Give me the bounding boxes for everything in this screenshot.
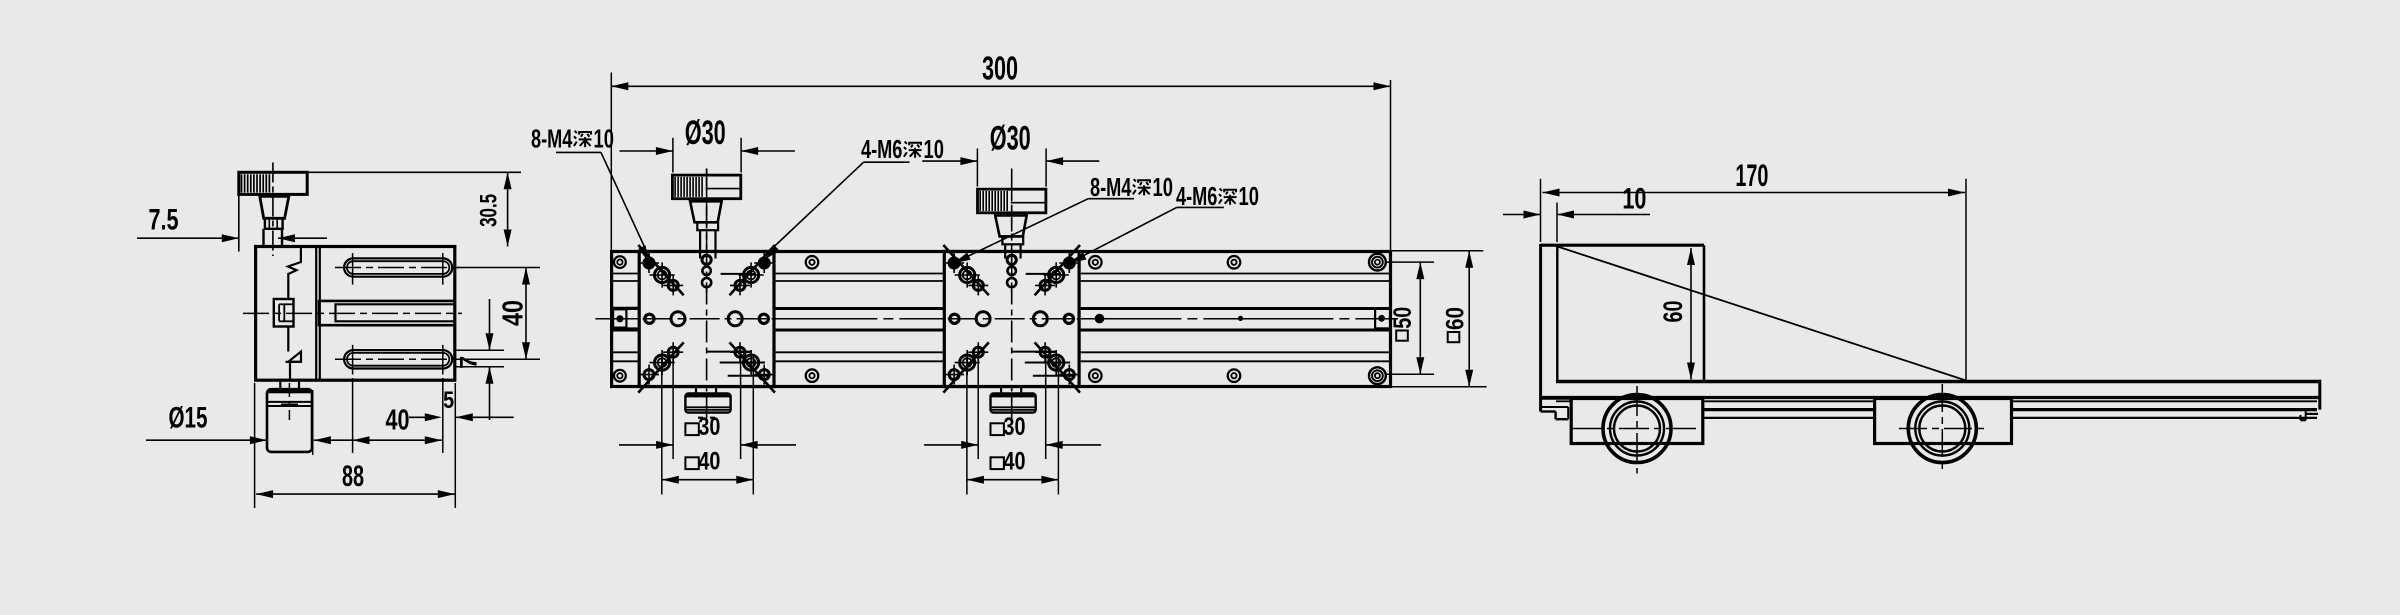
left view: middle slot outer band [319, 301, 455, 325]
right view: rail right end steps [2318, 380, 2321, 410]
left view: dim 7.5 extension line [238, 194, 240, 251]
knob 1 tapered collar [690, 201, 722, 222]
svg-text:40: 40 [386, 405, 410, 437]
right view: knob circle 1 [1603, 395, 1671, 463]
svg-text:50: 50 [1389, 307, 1417, 329]
left view: micrometer stem [262, 229, 264, 248]
middle view: rail groove lines [613, 273, 1389, 275]
middle view: dim square-60 extension lines [1392, 250, 1483, 252]
right view: dim 170 [1543, 192, 1966, 194]
svg-text:30: 30 [1004, 414, 1026, 441]
right view: dim 170 extension lines [1540, 179, 1542, 242]
middle view: carriage 2 dim square-40 [967, 479, 1059, 481]
svg-text:30: 30 [698, 414, 720, 441]
svg-text:7.5: 7.5 [149, 205, 179, 237]
middle view: dim square-50 [1419, 262, 1421, 374]
middle view: rail counterbored hole pair x=1377 [1369, 254, 1386, 271]
left view: dim 40 vertical extension lines [456, 267, 540, 269]
svg-text:10: 10 [1239, 183, 1259, 211]
middle view: micrometer knob 2 [1011, 183, 1013, 280]
left view: micrometer cap neck below body [279, 380, 281, 389]
left view: horizontal centerline of middle slot [243, 312, 462, 314]
carriage 2 bottom-left hole group [943, 342, 988, 392]
middle view: carriage 2 square-40 extension lines [966, 357, 968, 495]
knob 1 stem [697, 222, 718, 230]
middle view: dim Ø30 knob1 [620, 150, 673, 152]
middle view: bottom knob cap 2 [1000, 387, 1002, 394]
knob 2 tapered collar [995, 215, 1026, 236]
left view: captive nut block [274, 299, 294, 327]
svg-text:8-M4: 8-M4 [1090, 174, 1132, 202]
middle view: rail counterbored hole pair x=1095 [1089, 256, 1102, 269]
svg-text:10: 10 [1622, 183, 1646, 216]
left view: cap centerline cross [288, 383, 290, 420]
knob 2 stem [1002, 236, 1023, 244]
svg-text:40: 40 [1004, 449, 1026, 476]
middle view: dim 300 extension lines [610, 73, 612, 251]
left view: dim 30.5 [507, 172, 509, 246]
svg-text:4-M6: 4-M6 [861, 136, 902, 164]
middle view: dim square-50 extension lines [1386, 261, 1434, 263]
middle view: dim Ø30 knob1 extension lines [672, 138, 674, 173]
middle view: left end counterbored holes [614, 256, 626, 268]
left view: dim 7.5 [137, 237, 239, 239]
right view: rail lower groove lines [1703, 408, 1875, 411]
middle view: carriage 1 square-30 extension lines [672, 347, 674, 459]
left view: dim 40 bottom extension lines [352, 378, 354, 453]
middle view: rail left end cap [638, 252, 640, 387]
middle view: carriage 2 square-30 extension lines [977, 347, 979, 459]
svg-text:60: 60 [1442, 307, 1470, 330]
svg-text:30.5: 30.5 [476, 194, 503, 227]
carriage 2 top-right hole group [1035, 245, 1080, 295]
middle view: cap1 centerline dots [698, 417, 716, 419]
svg-text:40: 40 [497, 300, 529, 326]
svg-text:10: 10 [594, 126, 614, 154]
carriage 1 centre column holes [706, 169, 708, 426]
svg-text:300: 300 [982, 50, 1018, 87]
left view: dim 40 bottom [353, 439, 442, 441]
right view: knob circle 2 [1908, 395, 1976, 463]
left view: zigzag break line [288, 248, 301, 299]
carriage 2 centre column holes [1011, 169, 1013, 426]
middle view: rail body outline [612, 252, 1391, 387]
middle view: carriage 1 dim square-30 [619, 444, 673, 446]
left view: micrometer vertical centerline [272, 163, 274, 257]
carriage 2 centre row holes [901, 318, 1085, 320]
svg-text:Ø30: Ø30 [990, 120, 1031, 158]
middle view: carriage 1 dim square-40 [662, 479, 754, 481]
left view: body outline [256, 247, 455, 381]
middle view: rail counterbored hole pair x=812 [806, 256, 819, 269]
middle view: rail right groove end block [1375, 309, 1390, 329]
left view: micrometer tapered collar [260, 196, 289, 218]
right view: carriage block 2 [1875, 399, 2012, 444]
middle view: carriage 1 plate [639, 252, 774, 387]
svg-text:170: 170 [1735, 158, 1768, 193]
middle view: carriage 2 dim square-30 [924, 444, 978, 446]
carriage 2 bottom-right hole group [1035, 342, 1080, 392]
left view: dim 7 extension lines [456, 349, 504, 351]
svg-text:Ø30: Ø30 [685, 114, 726, 152]
left view: carriage/body divider lines [315, 247, 317, 381]
middle view: rail centerline [595, 318, 1398, 320]
middle view: rail centerline dots [1095, 314, 1105, 324]
carriage 1 top-right hole group [730, 245, 775, 295]
svg-text:5: 5 [443, 388, 454, 414]
svg-text:10: 10 [924, 136, 944, 164]
middle view: left end screw square [613, 309, 626, 327]
middle view: micrometer knob 1 [706, 169, 708, 266]
left view: dim 88 extension lines [254, 383, 256, 508]
right view: rail lower surface [1542, 396, 2319, 399]
middle view: dim 300 [611, 85, 1390, 87]
right view: dim 10 extension line [1556, 203, 1558, 243]
svg-text:Ø15: Ø15 [169, 403, 208, 435]
middle view: bottom knob cap 1 [695, 387, 697, 394]
middle view: leader target hole fills [644, 258, 655, 269]
right view: rail top surface [1556, 380, 2321, 383]
right view: table top plate [1541, 244, 1705, 247]
right view: dim 60 [1690, 248, 1692, 380]
left view: dim 40 vertical [525, 268, 527, 360]
left view: lock lever stem and flag [287, 327, 289, 352]
right view: left plate inner edge [1556, 244, 1558, 380]
carriage 2 section tick lines [1026, 273, 1061, 275]
carriage 1 bottom-left hole group [638, 342, 683, 392]
middle view: dim Ø30 knob2 extension lines [976, 149, 978, 187]
middle view: carriage 2 plate [944, 252, 1079, 387]
left view: dim 7 [489, 299, 491, 350]
left view: top obround slot [344, 258, 452, 276]
right view: left plate outer edge [1539, 244, 1542, 412]
left view: micrometer knob cap below body [267, 389, 312, 452]
right view: carriage block 1 [1571, 399, 1703, 444]
middle view: dim Ø30 knob2 [922, 160, 977, 162]
right view: left plate bottom steps [1542, 397, 1571, 399]
left view: middle slot inner band [336, 304, 455, 321]
carriage 1 bottom-right hole group [730, 342, 775, 392]
svg-text:40: 40 [698, 449, 720, 476]
carriage 1 section tick lines [721, 273, 756, 275]
middle view: dim square-60 [1468, 251, 1470, 387]
left view: bottom obround slot [344, 350, 452, 368]
svg-text:8-M4: 8-M4 [531, 126, 573, 154]
left view: knurled knob (side) [239, 172, 307, 194]
carriage 1 centre row holes [596, 318, 780, 320]
middle view: rail counterbored hole pair x=1234 [1228, 256, 1241, 269]
carriage 2 top-left hole group [943, 245, 988, 295]
left view: 30.5 extension line from knob top [307, 171, 521, 173]
svg-text:88: 88 [342, 460, 364, 493]
left view: micrometer collet [265, 218, 283, 229]
right view: dim 10 [1503, 214, 1541, 216]
right view: travel diagonal line [1558, 247, 1967, 381]
left view: dim 88 [256, 493, 455, 495]
svg-text:7: 7 [456, 356, 483, 369]
left view: dim Ø15 arrows [146, 439, 267, 441]
svg-text:10: 10 [1153, 174, 1173, 202]
middle view: carriage 1 square-40 extension lines [661, 357, 663, 495]
svg-text:60: 60 [1657, 301, 1688, 323]
carriage 1 top-left hole group [638, 245, 683, 295]
